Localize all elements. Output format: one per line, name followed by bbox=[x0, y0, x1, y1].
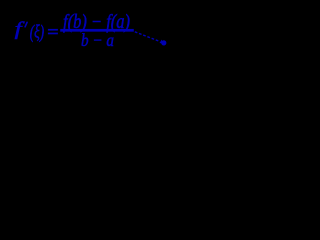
dot bbox=[161, 40, 166, 45]
fraction bar bbox=[61, 29, 134, 31]
prime mark bbox=[25, 22, 27, 27]
svg-text:(ξ): (ξ) bbox=[30, 23, 44, 43]
svg-text:b − a: b − a bbox=[81, 30, 114, 50]
arrowhead bbox=[160, 40, 164, 44]
equals sign bbox=[48, 29, 58, 31]
dashed arrow bbox=[135, 32, 167, 46]
